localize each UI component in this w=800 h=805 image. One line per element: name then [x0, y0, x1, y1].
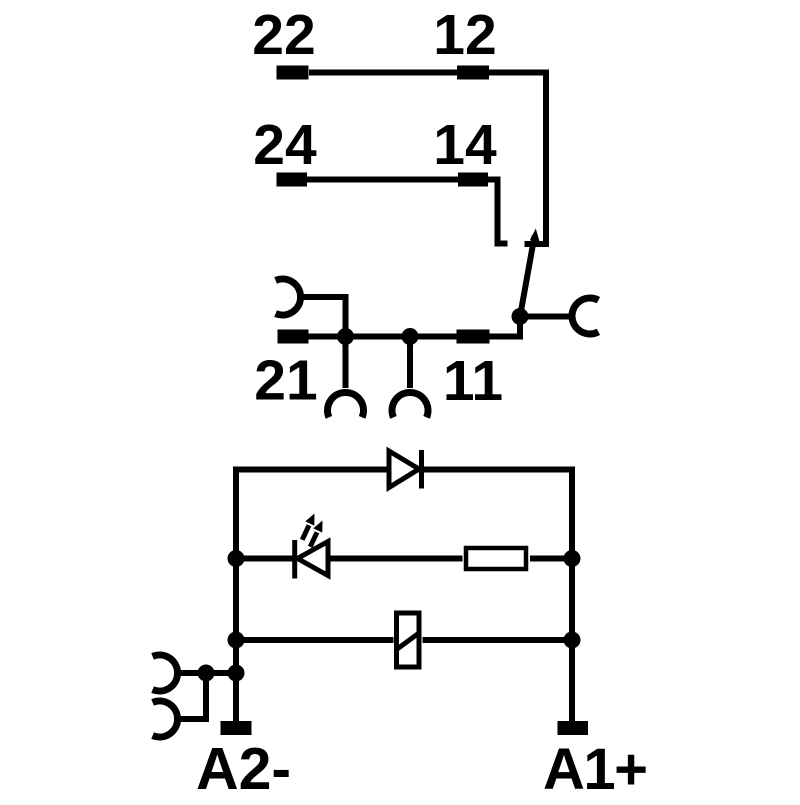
coil block left rail [233, 467, 239, 722]
top wire of coil block [233, 467, 575, 473]
relay coil diagonal [397, 633, 420, 650]
wire aux dot to rail [206, 670, 236, 676]
terminal 12 pad [457, 66, 489, 80]
wire resistor to right rail [530, 556, 572, 562]
svg-text:11: 11 [443, 349, 503, 413]
terminal A1 pad [558, 721, 589, 735]
switch arm with arrow [520, 236, 535, 317]
wire left rail to LED [236, 556, 294, 562]
wire coil to right rail [423, 637, 573, 643]
relay coil K1 body [397, 613, 420, 667]
junction dot aux left [198, 665, 215, 682]
LED cathode bar [292, 540, 297, 579]
upper aux socket [153, 655, 178, 691]
junction dot left low [228, 632, 245, 649]
diode D1 cathode bar [419, 450, 424, 489]
freewheeling diode D1 triangle [389, 451, 419, 488]
wire vertical from 12 down to fixed contact [525, 70, 547, 245]
junction dot 11 node [512, 308, 529, 325]
terminal 21 pad [278, 330, 309, 344]
socket contact left above 21 [276, 279, 301, 315]
terminal 24 pad [277, 173, 308, 187]
wire 12 to right corner [489, 70, 546, 76]
wire 21 to 11 row [308, 334, 457, 340]
svg-text:A2-: A2- [196, 736, 291, 800]
LED arrow 1 [302, 525, 309, 540]
svg-text:21: 21 [254, 349, 317, 413]
wire 22 to 12 [309, 70, 457, 76]
terminal A2 pad [221, 721, 252, 735]
terminal 22 pad [277, 66, 309, 80]
wire left rail to coil [236, 637, 394, 643]
junction dot right mid [564, 550, 581, 567]
wire left socket to junction [299, 297, 346, 337]
wire LED to resistor [328, 556, 463, 562]
terminal 14 pad [458, 173, 488, 187]
wire dot down to 11 row [517, 314, 523, 337]
junction dot A [337, 328, 354, 345]
svg-text:12: 12 [433, 3, 496, 67]
wire dot to right socket [520, 314, 570, 320]
terminal 11 pad [457, 330, 490, 344]
junction dot right low [564, 632, 581, 649]
svg-text:14: 14 [433, 113, 497, 177]
LED triangle pointing left [298, 542, 329, 576]
wire 11 to corner under dot [489, 334, 523, 340]
svg-text:22: 22 [252, 3, 315, 67]
socket fork below dot A [328, 392, 364, 417]
socket fork below dot B [392, 392, 428, 417]
switch arm arrowhead [530, 229, 540, 242]
svg-text:24: 24 [253, 113, 317, 177]
lower aux socket [153, 701, 178, 737]
pin stub below dot B [407, 337, 413, 389]
coil block right rail [569, 467, 575, 722]
wire 24 to 14 [306, 177, 459, 183]
svg-text:A1+: A1+ [543, 737, 647, 800]
LED arrow 2 [310, 532, 317, 547]
wire aux dot to upper socket [177, 670, 206, 676]
resistor R1 [466, 548, 526, 569]
wire aux dot down to lower socket [177, 673, 206, 719]
junction dot left mid [228, 550, 245, 567]
junction dot aux on rail [228, 665, 245, 682]
junction dot B [402, 328, 419, 345]
socket contact right of switch [572, 298, 598, 334]
pin stub below dot A [343, 337, 349, 389]
wire 14 down to fixed contact [487, 180, 508, 244]
